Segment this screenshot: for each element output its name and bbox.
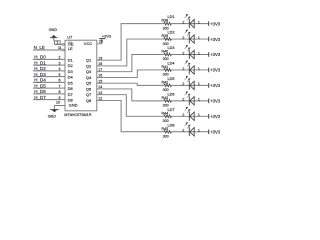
svg-text:9: 9 (59, 96, 61, 100)
resistor R41 (162, 65, 172, 77)
wire resistor to LED (171, 23, 208, 25)
svg-text:Q8: Q8 (86, 98, 92, 103)
ground (top, on OE) (49, 28, 58, 37)
svg-text:H_D0: H_D0 (34, 55, 46, 60)
chip U7 74HC573 body (65, 40, 97, 111)
svg-text:7: 7 (59, 84, 61, 88)
svg-text:H_D4: H_D4 (34, 78, 46, 83)
svg-text:D7: D7 (68, 92, 74, 97)
bubble on LE pin (62, 49, 64, 51)
wire Q3 pin 17 to LED row 3 (97, 55, 164, 72)
wire resistor to LED (171, 131, 208, 133)
svg-text:10: 10 (56, 101, 60, 105)
wire Q2 pin 18 to LED row 2 (97, 39, 164, 66)
svg-text:Q6: Q6 (86, 86, 92, 91)
wire Q6 pin 14 to LED row 6 (97, 89, 164, 101)
power +3V3 row 3 (209, 52, 221, 57)
svg-text:300: 300 (163, 134, 169, 138)
svg-text:1: 1 (198, 82, 200, 86)
wire H_D0 to D1 (33, 58, 65, 60)
svg-text:GND: GND (49, 28, 58, 32)
resistor R38 (162, 19, 172, 31)
svg-text:Q2: Q2 (86, 63, 92, 68)
svg-text:1: 1 (198, 20, 200, 24)
svg-text:16: 16 (98, 74, 102, 78)
svg-text:D5: D5 (68, 80, 74, 85)
svg-text:H_D1: H_D1 (34, 60, 46, 65)
svg-text:LD2: LD2 (168, 31, 175, 35)
power +3V3 (VCC) (99, 33, 112, 38)
svg-text:6: 6 (59, 79, 61, 83)
power +3V3 row 7 (209, 114, 221, 119)
LED LD8 (168, 122, 195, 136)
svg-text:M74HC573M1R: M74HC573M1R (64, 113, 91, 117)
svg-text:R42: R42 (162, 80, 169, 84)
svg-text:LD3: LD3 (168, 46, 175, 50)
wire Q7 pin 13 to LED row 7 (97, 95, 164, 117)
svg-text:+3V3: +3V3 (210, 21, 221, 26)
svg-text:2: 2 (182, 36, 184, 40)
wire VCC pin 20 to +3V3 (97, 39, 102, 44)
wire H_D6 to D7 (33, 93, 65, 95)
wire GND to OE pin 1 (54, 38, 62, 45)
LED LD3 (168, 45, 195, 59)
wire resistor to LED (171, 100, 208, 102)
LED LD1 (168, 14, 195, 28)
svg-text:Q4: Q4 (86, 75, 92, 80)
svg-text:D6: D6 (68, 86, 74, 91)
svg-text:+3V3: +3V3 (210, 37, 221, 42)
svg-text:U7: U7 (67, 35, 73, 40)
svg-text:2: 2 (182, 129, 184, 133)
wire H_D2 to D3 (33, 70, 65, 72)
svg-text:17: 17 (98, 68, 102, 72)
svg-text:2: 2 (182, 51, 184, 55)
svg-text:+3V3: +3V3 (210, 83, 221, 88)
svg-text:1: 1 (198, 67, 200, 71)
svg-text:N_LE: N_LE (34, 45, 45, 50)
resistor R43 (162, 96, 172, 108)
svg-text:D3: D3 (68, 69, 74, 74)
svg-text:13: 13 (98, 91, 102, 95)
svg-text:H_D3: H_D3 (34, 72, 46, 77)
resistor R45 (162, 127, 172, 139)
wire H_D1 to D2 (33, 64, 65, 66)
svg-text:D8: D8 (68, 98, 74, 103)
svg-text:4: 4 (59, 67, 61, 71)
svg-text:LD8: LD8 (168, 123, 175, 127)
svg-text:LE: LE (68, 46, 73, 51)
wire Q4 pin 16 to LED row 4 (97, 70, 164, 78)
wire Q5 pin 15 to LED row 5 (97, 83, 164, 85)
wire resistor to LED (171, 38, 208, 40)
svg-text:+3V3: +3V3 (210, 68, 221, 73)
LED LD5 (168, 76, 195, 90)
resistor R42 (162, 80, 172, 92)
svg-text:Q5: Q5 (86, 81, 92, 86)
power +3V3 row 6 (209, 99, 221, 104)
svg-text:LD1: LD1 (168, 15, 175, 19)
svg-text:Q1: Q1 (86, 58, 92, 63)
svg-text:1: 1 (198, 98, 200, 102)
wire resistor to LED (171, 84, 208, 86)
svg-text:1: 1 (198, 36, 200, 40)
resistor R39 (162, 34, 172, 46)
svg-text:+3V3: +3V3 (210, 99, 221, 104)
power +3V3 row 4 (209, 68, 221, 73)
power +3V3 row 1 (209, 21, 221, 26)
wire GND pin 10 (54, 106, 65, 110)
svg-text:1: 1 (56, 41, 58, 45)
svg-text:20: 20 (99, 40, 103, 44)
wire H_D7 to D8 (33, 99, 65, 101)
bubble on OE pin (62, 43, 64, 45)
wire resistor to LED (171, 69, 208, 71)
svg-text:14: 14 (98, 85, 102, 89)
svg-text:+3V3: +3V3 (102, 33, 112, 38)
svg-text:15: 15 (98, 79, 102, 83)
svg-text:H_D7: H_D7 (34, 95, 46, 100)
svg-text:+3V3: +3V3 (210, 129, 221, 134)
svg-text:H_D6: H_D6 (34, 89, 46, 94)
svg-text:LD7: LD7 (168, 108, 175, 112)
wire Q1 pin 19 to LED row 1 (97, 24, 164, 61)
wire H_D3 to D4 (33, 76, 65, 78)
svg-text:18: 18 (98, 62, 102, 66)
svg-text:19: 19 (98, 56, 102, 60)
svg-text:+3V3: +3V3 (210, 52, 221, 57)
svg-text:D1: D1 (68, 57, 74, 62)
svg-text:+3V3: +3V3 (210, 114, 221, 119)
LED LD7 (168, 107, 195, 121)
resistor R40 (162, 50, 172, 62)
ground (bottom, pin 10) (48, 110, 59, 119)
svg-text:LD5: LD5 (168, 77, 175, 81)
wire H_D4 to D5 (33, 81, 65, 83)
pin name OE with overline (68, 41, 74, 46)
svg-text:1: 1 (198, 113, 200, 117)
LED LD2 (168, 30, 195, 44)
svg-text:Q7: Q7 (86, 92, 92, 97)
svg-text:GND: GND (48, 115, 57, 119)
svg-text:2: 2 (59, 56, 61, 60)
wire Q8 pin 12 to LED row 8 (97, 100, 164, 131)
svg-text:GND: GND (69, 103, 78, 108)
svg-text:H_D2: H_D2 (34, 66, 46, 71)
net N_LE wire (33, 49, 62, 51)
wire H_D5 to D6 (33, 87, 65, 89)
svg-text:LD6: LD6 (168, 92, 175, 96)
svg-text:2: 2 (182, 98, 184, 102)
svg-text:1: 1 (198, 51, 200, 55)
power +3V3 row 5 (209, 83, 221, 88)
svg-text:D2: D2 (68, 63, 74, 68)
LED LD4 (168, 61, 195, 75)
svg-text:11: 11 (58, 46, 62, 50)
svg-text:2: 2 (182, 113, 184, 117)
svg-text:VCC: VCC (84, 41, 93, 46)
svg-text:2: 2 (182, 67, 184, 71)
svg-text:Q3: Q3 (86, 69, 92, 74)
svg-text:5: 5 (59, 73, 61, 77)
power +3V3 row 2 (209, 37, 221, 42)
LED LD6 (168, 92, 195, 106)
svg-text:8: 8 (59, 90, 61, 94)
svg-text:1: 1 (198, 129, 200, 133)
svg-text:2: 2 (182, 20, 184, 24)
wire resistor to LED (171, 115, 208, 117)
svg-text:3: 3 (59, 61, 61, 65)
svg-text:12: 12 (98, 97, 102, 101)
svg-text:H_D5: H_D5 (34, 83, 46, 88)
resistor R44 (162, 111, 172, 123)
svg-text:LD4: LD4 (168, 62, 175, 66)
power +3V3 row 8 (209, 129, 221, 134)
svg-text:2: 2 (182, 82, 184, 86)
wire resistor to LED (171, 54, 208, 56)
svg-text:D4: D4 (68, 75, 74, 80)
